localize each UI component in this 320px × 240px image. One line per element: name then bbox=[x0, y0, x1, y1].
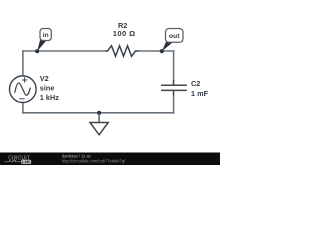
footer logo LAB badge bbox=[21, 160, 31, 164]
capacitor C2 bottom stub bbox=[173, 90, 175, 95]
svg-text:100 Ω: 100 Ω bbox=[113, 29, 136, 38]
voltage source V2 sine symbol bbox=[15, 83, 31, 95]
node in flag tail bbox=[37, 39, 46, 51]
svg-text:sine: sine bbox=[40, 84, 55, 93]
voltage source V2 circle bbox=[9, 76, 36, 103]
footer black bar bbox=[0, 153, 220, 166]
wire right vertical (out corner to C2) bbox=[173, 50, 175, 81]
resistor R2 zigzag bbox=[105, 46, 139, 57]
node in junction dot bbox=[35, 49, 39, 53]
voltage source plus sign bbox=[22, 77, 27, 82]
wire left vertical (V2 to bottom corner) bbox=[22, 102, 24, 114]
svg-text:out: out bbox=[169, 33, 180, 40]
svg-text:LAB: LAB bbox=[22, 160, 30, 164]
svg-text:in: in bbox=[43, 32, 49, 39]
node in flag box bbox=[40, 29, 51, 41]
ground stub bbox=[98, 113, 100, 123]
svg-text:1 mF: 1 mF bbox=[191, 89, 209, 98]
wire right vertical (C2 to bottom corner) bbox=[173, 95, 175, 114]
voltage source minus sign bbox=[19, 98, 24, 100]
wire left vertical (top corner to V2) bbox=[22, 50, 24, 76]
node out flag box bbox=[166, 29, 184, 43]
ground junction dot bbox=[97, 111, 101, 115]
wire top (resistor to out corner) bbox=[139, 50, 174, 52]
capacitor C2 bottom plate bbox=[161, 89, 187, 91]
node out flag tail bbox=[162, 41, 173, 51]
svg-text:V2: V2 bbox=[40, 74, 49, 83]
wire bottom horizontal bbox=[22, 112, 174, 114]
svg-text:1 kHz: 1 kHz bbox=[40, 93, 59, 102]
capacitor C2 top plate bbox=[161, 84, 187, 86]
wire top (left segment, node in to resistor) bbox=[22, 50, 105, 52]
canvas background bbox=[0, 0, 220, 165]
ground triangle bbox=[90, 123, 108, 135]
capacitor C2 top stub bbox=[173, 80, 175, 85]
svg-text:http://circuitlab.com/cqh77erk: http://circuitlab.com/cqh77erkk47g/ bbox=[62, 158, 126, 163]
svg-text:C2: C2 bbox=[191, 79, 200, 88]
node out junction dot bbox=[160, 49, 164, 53]
footer logo waveform line bbox=[5, 160, 22, 162]
